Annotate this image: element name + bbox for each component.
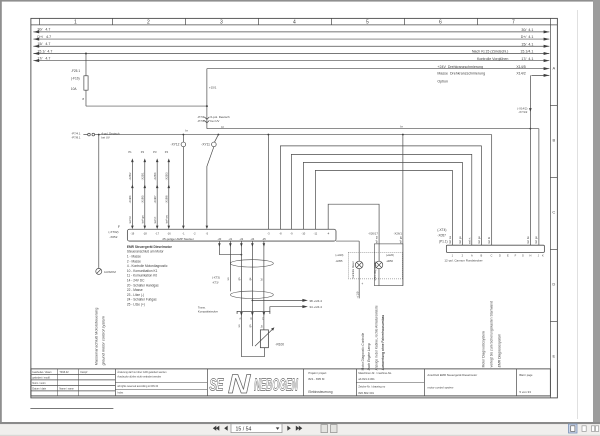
svg-text:8: 8 bbox=[82, 97, 84, 101]
svg-text:twi² bl: twi² bl bbox=[128, 216, 132, 223]
svg-text:E: E bbox=[507, 253, 509, 257]
svg-text:X14/5: X14/5 bbox=[516, 65, 525, 69]
svg-text:-F25.1: -F25.1 bbox=[71, 69, 80, 73]
svg-text:Blatt / page: Blatt / page bbox=[519, 373, 533, 377]
svg-text:Kontrolle Diesel: Kontrolle Diesel bbox=[352, 261, 355, 278]
svg-text:-X26/17: -X26/17 bbox=[368, 231, 378, 235]
svg-text:-25: -25 bbox=[262, 237, 266, 241]
svg-text:D+/ 4.7: D+/ 4.7 bbox=[37, 35, 51, 39]
svg-text:verlegt bis zum Scherungskaste: verlegt bis zum Scherungskasten Starrwan… bbox=[489, 301, 493, 367]
svg-text:-3: -3 bbox=[267, 231, 270, 235]
svg-text:(-XT4): (-XT4) bbox=[437, 228, 446, 232]
svg-text:A: A bbox=[471, 253, 473, 257]
svg-text:EMR-Diag engine: EMR-Diag engine bbox=[374, 261, 377, 281]
svg-text:Kompaktstecker: Kompaktstecker bbox=[198, 309, 218, 313]
svg-text:+15/1: +15/1 bbox=[209, 85, 217, 89]
svg-text:P1: P1 bbox=[128, 150, 132, 154]
svg-text:A: A bbox=[553, 65, 556, 70]
svg-text:bl: bl bbox=[221, 125, 224, 129]
svg-text:bei UV: bei UV bbox=[210, 119, 219, 123]
svg-text:twi² rt: twi² rt bbox=[153, 217, 157, 224]
svg-text:2: 2 bbox=[462, 253, 464, 257]
svg-text:15/ 4.1: 15/ 4.1 bbox=[521, 42, 533, 46]
svg-text:17/ 4.7: 17/ 4.7 bbox=[37, 56, 50, 60]
svg-text:-H055: -H055 bbox=[335, 259, 343, 263]
svg-text:ab 821.0.301: ab 821.0.301 bbox=[358, 377, 375, 381]
svg-text:C: C bbox=[552, 209, 555, 214]
svg-text:ws: ws bbox=[227, 277, 230, 281]
svg-text:-10: -10 bbox=[302, 231, 306, 235]
svg-text:SE: SE bbox=[209, 376, 224, 395]
svg-text:X14/2: X14/2 bbox=[516, 72, 525, 76]
svg-text:(+H20): (+H20) bbox=[386, 253, 394, 257]
svg-text:-X057: -X057 bbox=[437, 233, 446, 237]
svg-text:twi² ge: twi² ge bbox=[477, 236, 481, 244]
svg-text:-X25/3: -X25/3 bbox=[165, 172, 169, 180]
svg-text:gn: gn bbox=[238, 277, 241, 280]
svg-text:(P1.1): (P1.1) bbox=[439, 239, 448, 243]
svg-text:P2: P2 bbox=[141, 150, 145, 154]
svg-text:-5: -5 bbox=[206, 231, 209, 235]
svg-text:6: 6 bbox=[439, 19, 442, 25]
svg-text:(-F1b): (-F1b) bbox=[71, 76, 80, 80]
svg-text:23 - Litze (-): 23 - Litze (-) bbox=[127, 293, 144, 297]
svg-text:D: D bbox=[552, 281, 555, 286]
svg-text:TR16.02: TR16.02 bbox=[59, 371, 69, 374]
svg-text:10A: 10A bbox=[71, 87, 78, 91]
svg-text:twi² gn: twi² gn bbox=[141, 215, 145, 223]
svg-text:-X7/1/2: -X7/1/2 bbox=[518, 110, 527, 114]
svg-text:br: br bbox=[260, 325, 263, 327]
svg-text:br: br bbox=[400, 124, 403, 128]
svg-text:-X19/6: -X19/6 bbox=[165, 195, 169, 203]
svg-text:22 - Masse: 22 - Masse bbox=[127, 288, 143, 292]
svg-text:twi² ws: twi² ws bbox=[448, 235, 452, 244]
svg-text:-P7/8: -P7/8 bbox=[197, 119, 205, 123]
svg-text:1: 1 bbox=[74, 19, 77, 25]
svg-text:-22: -22 bbox=[240, 237, 244, 241]
svg-text:4-Rb/KM: 4-Rb/KM bbox=[104, 270, 116, 274]
svg-text:K: K bbox=[542, 253, 544, 257]
svg-text:Projekt / project: Projekt / project bbox=[308, 371, 326, 375]
svg-text:+24V Drehkranzschmierung: +24V Drehkranzschmierung bbox=[437, 65, 483, 69]
svg-text:Index: Index bbox=[117, 391, 124, 394]
svg-text:-21: -21 bbox=[229, 237, 233, 241]
svg-text:twi² bl: twi² bl bbox=[487, 237, 491, 244]
svg-text:N: N bbox=[228, 369, 251, 399]
svg-text:D+/ 4.1: D+/ 4.1 bbox=[521, 35, 534, 39]
svg-text:Norm / norm: Norm / norm bbox=[32, 382, 45, 385]
svg-text:15 / 54: 15 / 54 bbox=[236, 426, 252, 432]
svg-text:Anzeige in der Kabine, rechte: Anzeige in der Kabine, rechte Armaturenl… bbox=[374, 305, 378, 370]
svg-text:ge: ge bbox=[249, 277, 252, 280]
svg-text:Änderung darf nur über CAD geä: Änderung darf nur über CAD geändert werd… bbox=[117, 371, 167, 374]
svg-text:(+H10): (+H10) bbox=[335, 253, 343, 257]
svg-text:24 - Schalter Fußgas: 24 - Schalter Fußgas bbox=[127, 298, 157, 302]
svg-text:twi² ws: twi² ws bbox=[374, 235, 378, 244]
svg-text:30/ 4.1: 30/ 4.1 bbox=[521, 28, 533, 32]
svg-text:-R100: -R100 bbox=[275, 342, 284, 346]
svg-text:-17: -17 bbox=[155, 231, 159, 235]
svg-text:Datum / date: Datum / date bbox=[32, 387, 46, 390]
svg-text:15.1/4.1: 15.1/4.1 bbox=[520, 50, 533, 54]
svg-text:-20: -20 bbox=[218, 237, 222, 241]
svg-text:-1: -1 bbox=[182, 231, 185, 235]
svg-text:-11: -11 bbox=[314, 231, 318, 235]
svg-text:-9: -9 bbox=[290, 231, 293, 235]
svg-text:-16: -16 bbox=[167, 231, 171, 235]
svg-text:-X19/4: -X19/4 bbox=[128, 195, 132, 203]
svg-text:Kampf: Kampf bbox=[80, 371, 87, 374]
svg-text:30/ 4.7: 30/ 4.7 bbox=[37, 28, 50, 32]
svg-text:-X19/5: -X19/5 bbox=[141, 195, 145, 203]
svg-text:25-poliger AMP Stecker: 25-poliger AMP Stecker bbox=[162, 237, 193, 241]
svg-text:-P7/8.1: -P7/8.1 bbox=[71, 135, 80, 139]
svg-text:bl: bl bbox=[261, 278, 264, 280]
svg-text:bearbeitet / drawn: bearbeitet / drawn bbox=[32, 371, 52, 374]
svg-text:17/ 4.1: 17/ 4.1 bbox=[521, 57, 533, 61]
svg-text:P3: P3 bbox=[153, 150, 157, 154]
svg-text:-X052: -X052 bbox=[109, 235, 117, 239]
svg-text:2 - Masse: 2 - Masse bbox=[127, 259, 141, 263]
svg-text:-8: -8 bbox=[279, 231, 282, 235]
svg-text:5 von 33: 5 von 33 bbox=[519, 390, 531, 394]
svg-text:Massenanschluß Motorsteuerung: Massenanschluß Motorsteuerung bbox=[93, 308, 98, 366]
svg-text:motor control system: motor control system bbox=[427, 385, 454, 389]
svg-text:bei UV: bei UV bbox=[101, 135, 110, 139]
svg-text:ws/ rt: ws/ rt bbox=[468, 237, 472, 243]
svg-text:38 +/24.4: 38 +/24.4 bbox=[309, 299, 322, 303]
svg-text:15.1/ 4.7: 15.1/ 4.7 bbox=[37, 49, 52, 53]
svg-text:12-pol. Cannon Rundstecker: 12-pol. Cannon Rundstecker bbox=[444, 258, 482, 262]
svg-text:EMR Diagnosesystem: EMR Diagnosesystem bbox=[497, 334, 501, 368]
svg-text:Maschinen-Nr. / machine-No.: Maschinen-Nr. / machine-No. bbox=[358, 371, 392, 375]
svg-text:Anschluß EMR Steuergerät Diese: Anschluß EMR Steuergerät Dieselmotor bbox=[427, 373, 477, 377]
svg-text:twi² gn: twi² gn bbox=[399, 236, 403, 244]
svg-text:twi² ge: twi² ge bbox=[534, 236, 538, 244]
svg-text:4: 4 bbox=[293, 19, 296, 25]
svg-text:Motor Diagnosticsystem: Motor Diagnosticsystem bbox=[481, 331, 485, 367]
svg-text:5: 5 bbox=[366, 19, 369, 25]
svg-text:twi² bn: twi² bn bbox=[526, 236, 530, 244]
svg-text:25 - Litze (+): 25 - Litze (+) bbox=[127, 302, 145, 306]
svg-text:821 - 835 M: 821 - 835 M bbox=[308, 377, 325, 381]
svg-text:-X25/4: -X25/4 bbox=[153, 172, 157, 180]
svg-text:Auswertung ohne Fahrerhausumba: Auswertung ohne Fahrerhausumbau bbox=[381, 315, 385, 371]
svg-text:twi² ws: twi² ws bbox=[165, 215, 169, 224]
svg-text:20 - Schalter Handgas: 20 - Schalter Handgas bbox=[127, 283, 159, 287]
svg-text:E: E bbox=[553, 353, 556, 358]
svg-text:P4: P4 bbox=[165, 150, 169, 154]
svg-text:Steueranschluß am Motor: Steueranschluß am Motor bbox=[127, 250, 165, 254]
svg-text:EMR Steuergerät Dieselmotor: EMR Steuergerät Dieselmotor bbox=[127, 245, 173, 249]
svg-text:(-XT02): (-XT02) bbox=[108, 230, 118, 234]
svg-text:7: 7 bbox=[512, 19, 515, 25]
svg-text:H: H bbox=[529, 253, 531, 257]
svg-text:820.802.301: 820.802.301 bbox=[358, 391, 374, 395]
svg-text:br: br bbox=[185, 129, 188, 133]
svg-text:all rights reserved according: all rights reserved according to DIN 34 bbox=[117, 385, 158, 388]
svg-text:Nach Kl.15 (Zündschl.): Nach Kl.15 (Zündschl.) bbox=[472, 50, 509, 54]
svg-text:11 - Komunikation K0: 11 - Komunikation K0 bbox=[127, 274, 157, 278]
svg-text:-X26/1: -X26/1 bbox=[394, 231, 403, 235]
svg-text:F: F bbox=[515, 253, 517, 257]
svg-text:4 - Kontrolle Motordiagnostic: 4 - Kontrolle Motordiagnostic bbox=[127, 264, 168, 268]
svg-text:Motor Diagnostic Controlle: Motor Diagnostic Controlle bbox=[361, 333, 365, 371]
svg-text:B: B bbox=[553, 137, 556, 142]
svg-text:1 - Masse: 1 - Masse bbox=[127, 254, 141, 258]
svg-text:gn: gn bbox=[249, 324, 252, 327]
svg-text:Option: Option bbox=[437, 79, 448, 83]
svg-text:-H056: -H056 bbox=[386, 259, 394, 263]
svg-text:(-XT3): (-XT3) bbox=[212, 275, 220, 279]
svg-text:14 - 24V DC: 14 - 24V DC bbox=[127, 278, 145, 282]
svg-text:Name / name: Name / name bbox=[59, 387, 74, 390]
svg-text:Elektrosteuerung: Elektrosteuerung bbox=[308, 390, 332, 394]
svg-text:34 +/24.4: 34 +/24.4 bbox=[309, 305, 322, 309]
svg-text:Ausdrucke dürfen nicht verände: Ausdrucke dürfen nicht verändert werden bbox=[117, 375, 161, 378]
svg-text:-18: -18 bbox=[143, 231, 147, 235]
svg-text:ground motor control system: ground motor control system bbox=[100, 315, 105, 365]
svg-text:Masse Drehkranzschmierung: Masse Drehkranzschmierung bbox=[437, 72, 485, 76]
svg-text:-2: -2 bbox=[193, 231, 196, 235]
svg-text:2: 2 bbox=[147, 19, 150, 25]
svg-text:twi² gn: twi² gn bbox=[458, 236, 462, 244]
svg-text:Zeichn-Nr. / drawing no: Zeichn-Nr. / drawing no bbox=[358, 384, 385, 388]
svg-text:-X25/1: -X25/1 bbox=[141, 172, 145, 180]
svg-text:-X19/7: -X19/7 bbox=[153, 195, 157, 203]
svg-text:J: J bbox=[538, 253, 540, 257]
svg-text:C: C bbox=[490, 253, 492, 257]
svg-text:D: D bbox=[499, 253, 501, 257]
svg-text:B: B bbox=[481, 253, 483, 257]
svg-text:F: F bbox=[118, 225, 120, 229]
svg-text:+: + bbox=[361, 282, 363, 286]
svg-text:-19: -19 bbox=[131, 231, 135, 235]
svg-text:-XY11: -XY11 bbox=[201, 142, 210, 146]
svg-text:10 - Komunikation K1: 10 - Komunikation K1 bbox=[127, 269, 158, 273]
svg-text:C: C bbox=[262, 317, 264, 320]
svg-text:1: 1 bbox=[452, 253, 454, 257]
svg-text:-X25/2: -X25/2 bbox=[128, 172, 132, 180]
svg-text:3: 3 bbox=[220, 19, 223, 25]
svg-text:~/ 29: ~/ 29 bbox=[356, 291, 360, 298]
svg-text:geändert / modif.: geändert / modif. bbox=[32, 376, 50, 379]
svg-text:ws: ws bbox=[238, 324, 241, 328]
svg-text:Kontrolle Vorglühen: Kontrolle Vorglühen bbox=[477, 57, 508, 61]
svg-text:-X73/: -X73/ bbox=[212, 280, 219, 284]
svg-text:-4: -4 bbox=[327, 231, 330, 235]
svg-text:-24: -24 bbox=[251, 237, 255, 241]
svg-text:-XY12: -XY12 bbox=[171, 142, 180, 146]
svg-text:Duch Engine Lamp: Duch Engine Lamp bbox=[367, 343, 371, 370]
svg-text:NEBOGEN: NEBOGEN bbox=[254, 376, 298, 395]
svg-text:15/ 4.7: 15/ 4.7 bbox=[37, 42, 50, 46]
svg-text:G: G bbox=[522, 253, 524, 257]
